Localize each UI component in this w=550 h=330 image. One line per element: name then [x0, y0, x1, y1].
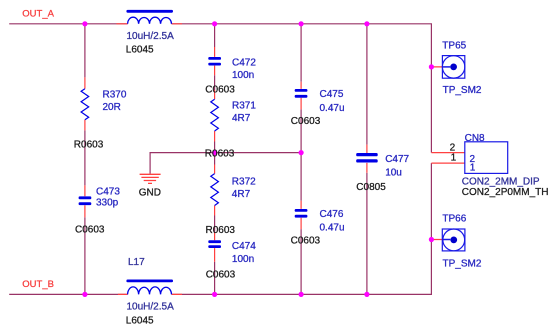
- svg-text:C475: C475: [320, 89, 344, 100]
- svg-text:TP_SM2: TP_SM2: [443, 85, 482, 96]
- svg-text:CON2_2P0MM_TH: CON2_2P0MM_TH: [462, 187, 549, 198]
- svg-text:L17: L17: [128, 257, 145, 268]
- svg-text:OUT_A: OUT_A: [22, 8, 54, 19]
- svg-text:C0603: C0603: [75, 224, 105, 235]
- svg-text:100n: 100n: [232, 254, 254, 265]
- svg-text:C476: C476: [320, 209, 344, 220]
- svg-text:C0603: C0603: [291, 116, 321, 127]
- svg-text:C473: C473: [96, 187, 120, 198]
- svg-text:4R7: 4R7: [232, 113, 251, 124]
- svg-text:R370: R370: [103, 90, 127, 101]
- svg-text:330p: 330p: [96, 197, 119, 208]
- svg-text:10u: 10u: [385, 167, 402, 178]
- svg-text:0.47u: 0.47u: [320, 222, 345, 233]
- svg-text:C0603: C0603: [206, 270, 236, 281]
- svg-text:R372: R372: [232, 177, 256, 188]
- svg-text:C474: C474: [232, 241, 256, 252]
- svg-text:L6045: L6045: [126, 45, 154, 56]
- svg-text:4R7: 4R7: [232, 189, 251, 200]
- svg-text:L6045: L6045: [126, 316, 154, 327]
- svg-text:C0805: C0805: [356, 182, 386, 193]
- svg-text:R371: R371: [232, 101, 256, 112]
- svg-text:0.47u: 0.47u: [320, 103, 345, 114]
- svg-text:C0603: C0603: [291, 235, 321, 246]
- svg-text:OUT_B: OUT_B: [22, 279, 54, 290]
- svg-text:20R: 20R: [103, 102, 121, 113]
- svg-text:R0603: R0603: [74, 139, 104, 150]
- svg-text:1: 1: [451, 153, 457, 164]
- svg-text:R0603: R0603: [205, 148, 235, 159]
- svg-text:100n: 100n: [232, 70, 254, 81]
- svg-text:1: 1: [470, 163, 476, 174]
- svg-text:C472: C472: [232, 57, 256, 68]
- svg-text:TP_SM2: TP_SM2: [443, 259, 482, 270]
- svg-text:GND: GND: [139, 187, 161, 198]
- svg-text:10uH/2.5A: 10uH/2.5A: [127, 302, 175, 313]
- svg-text:10uH/2.5A: 10uH/2.5A: [127, 31, 175, 42]
- svg-text:R0603: R0603: [206, 225, 236, 236]
- svg-text:CN8: CN8: [465, 133, 485, 144]
- svg-text:TP66: TP66: [442, 214, 466, 225]
- svg-text:C0603: C0603: [205, 84, 235, 95]
- svg-text:TP65: TP65: [442, 40, 466, 51]
- svg-text:C477: C477: [385, 154, 409, 165]
